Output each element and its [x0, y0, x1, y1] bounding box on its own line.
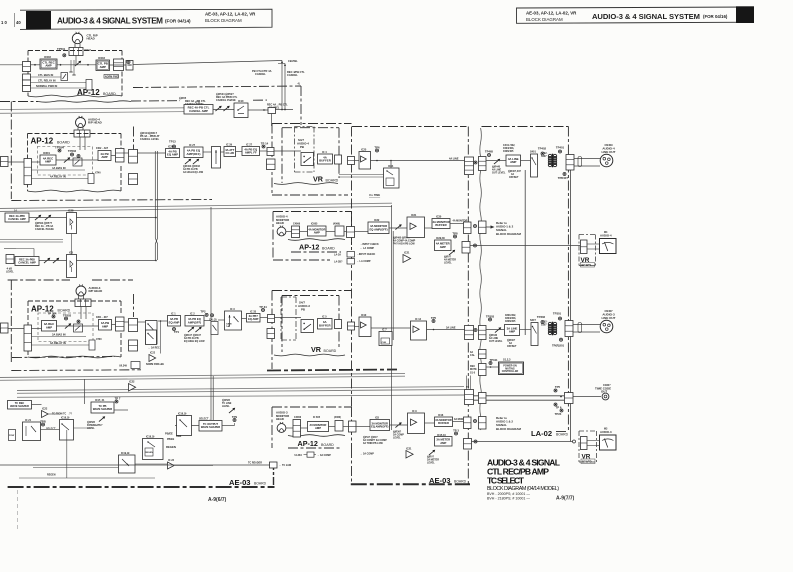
IC27 4A PB EQ AMP OFF: [184, 147, 203, 158]
wire meter-3 links: [587, 441, 600, 446]
svg-text:TP401: TP401: [556, 146, 565, 150]
svg-text:4A RELAY IN: 4A RELAY IN: [50, 175, 66, 179]
svg-text:S407: S407: [541, 155, 547, 158]
CN monitor-3 out: [349, 421, 357, 432]
label 0401,407 4A OFFSET: [508, 169, 522, 179]
board AP-12 (audio-4 monitor) outline: [273, 212, 352, 261]
CN monitor-4 head: [292, 226, 300, 238]
label AP-12 BOARD (audio-4): [31, 137, 71, 146]
IC26 4A PB EQ AMP: [166, 149, 180, 158]
svg-text:BOARD: BOARD: [57, 141, 70, 145]
svg-text:SELECT→: SELECT→: [199, 418, 211, 421]
svg-text:IC17, 21: IC17, 21: [95, 399, 105, 402]
svg-text:LINE OUT: LINE OUT: [602, 150, 616, 154]
op-amp IC22 tc-a: [129, 384, 136, 392]
op-amp in IC9: [411, 419, 417, 426]
svg-text:TC SELECT: TC SELECT: [487, 475, 525, 485]
label IC18,19 c + REGEN + SW3: [146, 435, 182, 449]
CN time code stack: [465, 390, 474, 405]
svg-text:EQ AMP: EQ AMP: [248, 317, 259, 321]
sw 4a rec head: [73, 158, 82, 166]
test point TP304: [48, 312, 57, 318]
label to 3A COMP arrow: [360, 453, 374, 456]
test point tc low: [554, 403, 562, 410]
svg-text:IC22: IC22: [129, 380, 135, 384]
CTL R/P head: [72, 32, 97, 44]
label S502 GL77 under pots: [35, 221, 54, 231]
IC25 line amp stage: [359, 152, 371, 170]
label CB PBL arrows: [288, 59, 298, 63]
svg-text:TP303: TP303: [486, 314, 495, 318]
vertical wire x525: [524, 170, 526, 335]
svg-text:SW3: SW3: [176, 435, 182, 438]
svg-text:TP303: TP303: [63, 313, 72, 317]
inner dashed sub-box audio-4 rec: [37, 147, 92, 176]
svg-text:IC21: IC21: [406, 447, 412, 451]
wires into IC34: [339, 160, 392, 177]
test point TP6 audio-4: [374, 145, 380, 152]
svg-text:3A RELAY IN: 3A RELAY IN: [50, 341, 66, 345]
svg-text:BLOCK DIAGRAM: BLOCK DIAGRAM: [526, 17, 563, 22]
svg-text:(4066): (4066): [334, 416, 341, 419]
svg-text:CANCEL AMP: CANCEL AMP: [8, 217, 26, 221]
IC003 inner border: [97, 61, 108, 69]
time code out wire pair: [17, 395, 564, 400]
svg-text:IC601: IC601: [43, 151, 50, 155]
CN vr3 out: [348, 322, 355, 330]
test point meter-3 mid: [474, 440, 477, 443]
svg-text:BOARD: BOARD: [326, 179, 339, 183]
test point TP303: [486, 314, 495, 321]
svg-text:VR: VR: [582, 454, 591, 461]
relay audio-3 pb select: [301, 320, 314, 333]
outer region around VR (audio-4) dash-dot: [272, 124, 352, 196]
svg-text:WAVE SHAPER: WAVE SHAPER: [10, 404, 29, 408]
svg-text:TP1: TP1: [174, 330, 180, 334]
svg-text:BUFFER: BUFFER: [319, 323, 331, 327]
svg-text:TP603: TP603: [68, 149, 77, 153]
svg-text:BVH - 2180PS; # 10001 —: BVH - 2180PS; # 10001 —: [487, 497, 530, 501]
svg-text:TP5: TP5: [555, 385, 561, 389]
IC5b 3A BUFFER: [318, 319, 333, 330]
svg-text:REGEN: REGEN: [47, 474, 56, 477]
svg-text:S30?: S30?: [530, 319, 536, 322]
svg-text:3A BIAS IN: 3A BIAS IN: [52, 333, 66, 337]
svg-text:TPB: TPB: [40, 419, 46, 423]
meter M4 AUDIO-4: [600, 239, 617, 254]
svg-text:PB/EE: PB/EE: [167, 438, 175, 441]
wire 3A line row: [355, 326, 465, 330]
svg-text:BOARD: BOARD: [454, 480, 467, 484]
label pots monitor-3: [393, 430, 404, 440]
label B R442 4A LINE OUT LEVEL: [492, 165, 506, 175]
board VR (audio-3) wavy bottom: [274, 354, 345, 356]
svg-text:3A LINE: 3A LINE: [446, 326, 456, 329]
svg-text:AUDIO-3 & 4 SIGNAL SYSTEM: AUDIO-3 & 4 SIGNAL SYSTEM: [57, 16, 163, 25]
S301 mute relay: [530, 319, 538, 346]
svg-text:AMP: AMP: [102, 324, 108, 328]
test point TP302a: [77, 320, 80, 323]
black tab top-left: [26, 11, 51, 30]
wire tc row links: [32, 405, 129, 430]
CN meter-4: [462, 242, 470, 254]
IC10 internals: [237, 106, 244, 114]
wire meter-4 links: [587, 244, 600, 249]
svg-text:BOARD: BOARD: [582, 460, 592, 464]
label VR BOARD (audio-4): [313, 175, 339, 184]
board AE-03 heavy bottom dash-dot left: [8, 486, 275, 488]
CN in VR meter-3: [581, 437, 588, 450]
U/L 349 link box: [119, 362, 140, 369]
svg-text:AMP(OFF): AMP(OFF): [188, 320, 202, 324]
pot cancel3 a: [43, 257, 51, 265]
pot cancel4 b: [44, 214, 52, 222]
inner dash-dot box AUDIO-4 PB: [295, 127, 315, 173]
svg-text:U.L TIME: U.L TIME: [369, 193, 380, 197]
label PB CTL/CTR 4A CANCEL: [252, 69, 272, 76]
test point monitor-3: [474, 420, 477, 423]
IC34 monitor select box: [384, 168, 400, 188]
wire eq chain links: [203, 151, 301, 152]
svg-text:HEAD: HEAD: [276, 417, 284, 421]
meter M3 AUDIO-3: [600, 435, 617, 450]
AUDIO-3 R/P head: [76, 285, 102, 297]
CN 4A far left: [1, 157, 9, 167]
label AP-12 BOARD (audio-3 monitor): [298, 439, 335, 448]
CN pb left small: [6, 255, 14, 264]
board AE-03 left dash-dot lower x351: [351, 448, 353, 484]
test point monitor-4: [474, 225, 477, 228]
svg-text:TP 7: TP 7: [115, 396, 121, 400]
wire monitor4 head link: [286, 231, 292, 233]
light dashed vertical left bottom: [17, 490, 19, 531]
labels above 4a eq chain: S414/S417 4A PB/4A PB AT CANCEL LEVEL: [140, 131, 160, 141]
IC002 CTL REC AMP: [40, 59, 57, 69]
svg-text:AMP: AMP: [100, 65, 106, 69]
svg-text:40: 40: [16, 20, 21, 25]
svg-text:CANCEL PHASE: CANCEL PHASE: [35, 228, 54, 231]
test point TP3: [453, 428, 459, 435]
svg-text:CTL BIAS IN: CTL BIAS IN: [38, 73, 53, 77]
wire TC READER: [0, 462, 270, 466]
test point la02 in3: [474, 329, 477, 332]
wire 4a head to board: [56, 137, 98, 160]
CN 3a eq out: [268, 315, 275, 323]
op-amp in IC12: [413, 326, 419, 333]
wire 4A line row: [355, 157, 465, 161]
wire monitor-3 chain2: [390, 422, 464, 426]
audio-3 region dash-dot top right of head: [92, 279, 133, 281]
test point TP5 audio-3: [431, 316, 437, 323]
CN small after buffer3: [335, 320, 342, 329]
svg-text:IC 27: IC 27: [246, 144, 253, 147]
op-amp in IC31: [410, 223, 416, 230]
svg-text:TP465: TP465: [485, 150, 494, 154]
svg-text:HEAD: HEAD: [276, 221, 284, 225]
svg-text:BUFFER: BUFFER: [438, 421, 449, 425]
monitor-4 aux box: [335, 226, 344, 236]
IC30y 3A PB AMP: [99, 320, 112, 331]
svg-text:BOARD: BOARD: [324, 349, 337, 353]
CN 4A eq out: [267, 148, 274, 156]
op-amp in IC10 line stage: [361, 322, 367, 328]
svg-text:→ 3A COMP: → 3A COMP: [360, 453, 374, 456]
test point TP24: [555, 409, 563, 416]
svg-text:0306/305: 0306/305: [505, 320, 516, 323]
test point TP1 audio-3: [173, 328, 180, 334]
board VR (audio-4) outline: [282, 128, 339, 183]
svg-text:BOARD: BOARD: [103, 92, 116, 96]
svg-text:CANCEL PHASE: CANCEL PHASE: [216, 99, 236, 102]
board VR (audio-4) wavy bottom: [274, 183, 338, 185]
4A LINE AMP: [506, 155, 521, 166]
svg-text:IC30: IC30: [436, 216, 442, 219]
monitor-3 aux box: [335, 421, 343, 432]
svg-text:BOARD: BOARD: [254, 482, 267, 486]
op-amp IC21 audio-3: [406, 451, 413, 459]
pot ctl azimuth: [74, 60, 82, 68]
svg-text:CHK: CHK: [382, 342, 387, 344]
CN vr out: [348, 157, 355, 165]
test point meter-4 mid: [474, 244, 477, 247]
svg-text:TP8: TP8: [452, 231, 458, 235]
svg-text:4 |: 4 |: [298, 83, 301, 86]
svg-text:IC10: IC10: [238, 99, 244, 103]
label B WVR DOWNGATE LEVEL: [87, 420, 103, 430]
relay select box 3a: [146, 321, 158, 345]
sw 3a rec head: [74, 324, 83, 332]
svg-text:TC READER: TC READER: [248, 462, 262, 465]
IC29-30 4A METER AMP: [435, 240, 452, 251]
svg-text:OFFSET: OFFSET: [509, 176, 519, 179]
black tab top-right: [736, 6, 754, 23]
svg-text:IC 5: IC 5: [322, 316, 327, 319]
op-amp IC22 norm fwd ee: [149, 355, 156, 362]
svg-text:EQ AMP(OFF): EQ AMP(OFF): [369, 227, 387, 231]
wire 4A RELAY IN: [32, 175, 89, 179]
svg-text:(FOR 04/16): (FOR 04/16): [703, 14, 728, 19]
svg-text:AP-12: AP-12: [298, 439, 318, 448]
svg-text:A-9(7/7): A-9(7/7): [556, 496, 575, 502]
svg-text:4A BIAS IN: 4A BIAS IN: [52, 166, 66, 170]
CN out CTL: [126, 61, 133, 71]
svg-text:IC8: IC8: [375, 417, 380, 420]
label AP-12 BOARD (audio-3): [31, 305, 71, 314]
title block top-left border: [20, 9, 272, 29]
svg-text:IC 33: IC 33: [250, 311, 257, 314]
test point TP7: [115, 396, 121, 403]
POW box left edge: [9, 430, 16, 441]
label AUDIO-3 MONITOR HEAD: [276, 411, 289, 422]
label 3A LINE OUT LEVEL: [489, 333, 503, 343]
CN LA-02 input stack: [465, 157, 474, 175]
test point TP465: [485, 150, 494, 157]
svg-text:CAL: CAL: [470, 354, 475, 357]
svg-text:IC 4: IC 4: [322, 151, 327, 154]
svg-text:AP-12: AP-12: [299, 243, 319, 252]
svg-text:X740: X740: [95, 172, 101, 175]
ground symbols under CTL head: [69, 60, 75, 75]
CTL head connector: [69, 48, 83, 56]
LA-02 aux link boxes (audio-4 area): [334, 252, 376, 265]
outer region around VR (audio-3) dash-dot: [272, 291, 352, 370]
wire monitor3 chain: [301, 427, 371, 429]
wire regen net: [19, 430, 213, 478]
CN CTL right: [114, 59, 124, 71]
CN monitor-3 b: [479, 417, 487, 430]
middle region dash-dot top right segment: [131, 100, 180, 102]
IC3 attenuator: [225, 311, 242, 330]
audio-3 region dash-dot bottom y356: [12, 357, 115, 358]
svg-text:LEVEL: LEVEL: [6, 271, 14, 274]
svg-text:CANCEL AMP: CANCEL AMP: [189, 109, 208, 113]
svg-text:AP-12: AP-12: [31, 137, 54, 146]
transformer T301 audio-3 line out: [548, 322, 556, 336]
svg-text:IC 7: IC 7: [382, 329, 387, 332]
label Refer to AUDIO-1&2 SIGNAL BLOCK DIAGRAM: [496, 221, 521, 236]
wire CTL input left: [0, 64, 23, 66]
svg-text:AMP: AMP: [315, 426, 321, 430]
svg-text:IC19,19: IC19,19: [121, 452, 130, 455]
svg-text:(4066): (4066): [333, 223, 340, 226]
svg-text:IC26: IC26: [168, 146, 174, 149]
CN CTL left3: [23, 80, 31, 86]
IC2 3A PB EQ AMP OFF: [185, 316, 204, 327]
wire cancel4 to IC28 and right: [29, 217, 157, 219]
svg-text:WAVE SHAPER: WAVE SHAPER: [93, 407, 112, 411]
label TP501 4CH2: [57, 47, 91, 52]
bus wire pair upper (REC/PB CTL cancel lines): [0, 108, 184, 114]
audio-4 head connector: [74, 130, 90, 137]
svg-text:S401: S401: [530, 151, 536, 154]
svg-text:AMP: AMP: [509, 330, 515, 334]
svg-text:TPR40?: TPR40?: [558, 176, 569, 180]
label B505 REC 4A-PB CTL CANCEL LEVEL: [179, 96, 206, 106]
pot 4a rec: [63, 156, 71, 164]
label VR BOARD meter-4: [581, 257, 595, 267]
svg-text:AE-03: AE-03: [429, 476, 451, 485]
svg-text:IC32: IC32: [374, 219, 380, 222]
inner dash-dot box AUDIO-3 PB: [281, 297, 296, 340]
svg-text:AMP: AMP: [45, 64, 51, 68]
svg-text:AMP: AMP: [510, 160, 516, 164]
test point TP301: [553, 312, 562, 320]
svg-text:GAIN: GAIN: [226, 323, 232, 326]
pot 3a line out level: [494, 326, 502, 334]
svg-text:IC002: IC002: [44, 55, 51, 59]
svg-text:TP 304: TP 304: [48, 312, 57, 316]
IC605 4A MONITOR AMP: [308, 226, 327, 236]
svg-text:IC 9: IC 9: [412, 410, 417, 413]
board AE-03 right step dash-dot: [273, 462, 275, 487]
CN time code b: [479, 393, 487, 404]
wire monitor-4 chain2: [389, 224, 464, 229]
svg-text:IC605: IC605: [311, 223, 318, 226]
middle region wavy top segment: [38, 101, 131, 102]
svg-text:EQ AMP: EQ AMP: [169, 320, 180, 324]
svg-text:AMP: AMP: [314, 231, 320, 235]
test point 4a mid: [77, 155, 80, 158]
test point TPR301: [552, 338, 565, 347]
wire monitor4 chain: [300, 231, 369, 233]
wire IC28 to IC5 vertical: [71, 234, 73, 255]
title text right: [526, 11, 728, 22]
CN CTL left: [23, 62, 31, 72]
relay box 3A REC mute: [146, 330, 157, 345]
svg-text:4CH2: 4CH2: [84, 48, 91, 52]
svg-text:CONTROLLER: CONTROLLER: [502, 370, 519, 373]
IC31 box with opamp: [407, 217, 425, 238]
test point TP402: [538, 147, 547, 155]
board LA-02 wavy left edge: [480, 128, 482, 430]
svg-text:TP5: TP5: [431, 316, 437, 320]
svg-text:LA-2B?: LA-2B?: [334, 261, 343, 264]
svg-text:4A HIGH EQ LOW: 4A HIGH EQ LOW: [183, 171, 204, 174]
IC15-16 3A METER AMP: [435, 437, 453, 447]
vertical wire pair x211: [211, 207, 213, 420]
CN 3A right: [116, 317, 125, 331]
svg-text:AUDIO-4: AUDIO-4: [600, 233, 612, 237]
label AE-03 BOARD left: [229, 478, 267, 487]
test point TP2 audio-3: [200, 310, 208, 317]
op-amp IC22 bottom: [168, 462, 175, 469]
IC19,19 box bottom: [119, 455, 136, 473]
CN 4A right: [116, 149, 125, 163]
IC11 REC 4A-PB CTL CANCEL AMP: [184, 105, 213, 115]
svg-text:TP13: TP13: [169, 140, 176, 144]
pot cancel4 a: [34, 214, 42, 222]
svg-text:IC5: IC5: [69, 251, 74, 255]
CN in VR meter-4: [581, 240, 588, 254]
junction dots CTL row: [34, 64, 89, 66]
CN time code out block: [565, 393, 574, 404]
svg-text:C4066: C4066: [293, 223, 301, 226]
svg-text:CB.PBL: CB.PBL: [288, 59, 298, 63]
label TP302 S302: [541, 321, 548, 327]
outer region dash-dot right x133 audio-3: [133, 294, 135, 317]
test point TPB: [40, 419, 46, 426]
svg-text:TP 3: TP 3: [453, 428, 459, 432]
test point CAL3: [211, 314, 214, 317]
CN CTL left2: [23, 74, 31, 80]
test point TP501: [63, 54, 66, 57]
CTL head stem: [75, 44, 80, 48]
svg-text:LA-02: LA-02: [531, 429, 552, 438]
IC60x 4A PB AMP: [98, 151, 111, 161]
board AP-12 (audio-3 monitor) wavy: [288, 435, 345, 437]
pot monitor-4 eq: [394, 223, 402, 231]
svg-text:0406/405: 0406/405: [503, 150, 514, 153]
svg-text:AMP: AMP: [45, 160, 51, 164]
IC9 box with opamp: [408, 413, 425, 434]
label S402 S407: [541, 152, 548, 158]
relay audio-4 pb select: [301, 153, 314, 166]
IC10 cancel mixer: [234, 103, 248, 118]
svg-text:OFFSET: OFFSET: [507, 345, 517, 348]
CN LA-02 input stack audio-3: [465, 326, 474, 340]
label IC3 and GAIN 7dB: [226, 308, 235, 328]
cancel-amp region dash-dot top y87: [133, 86, 301, 88]
wire CTL RELAY IN: [31, 79, 89, 83]
svg-text:LEVEL: LEVEL: [427, 462, 435, 465]
svg-text:BLOCK DIAGRAM: BLOCK DIAGRAM: [496, 232, 521, 236]
svg-text:TP6: TP6: [374, 145, 380, 149]
CN 4A pair: [129, 150, 138, 164]
svg-text:AMP: AMP: [46, 325, 52, 329]
svg-text:TP(R)301: TP(R)301: [552, 343, 565, 347]
IC30x 3A REC AMP: [42, 321, 57, 332]
transformer T401 audio-4 line out: [548, 154, 556, 168]
